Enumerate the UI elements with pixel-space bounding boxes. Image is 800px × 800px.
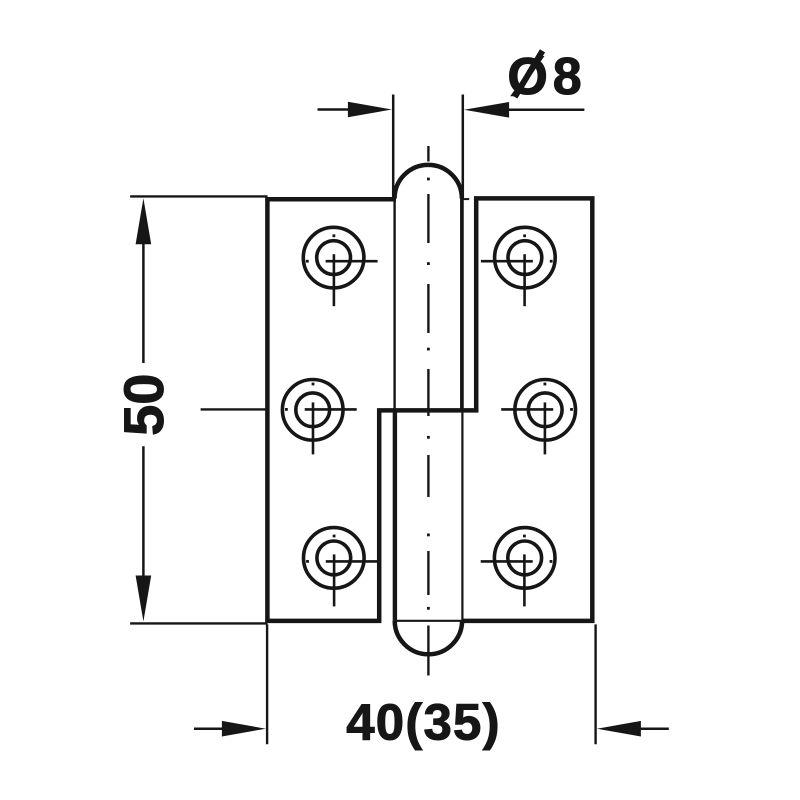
hole H2 top-right [481,227,555,306]
dimension D8 left arrow [318,102,392,118]
right leaf outline [461,198,593,621]
dimension 40(35) right arrow [597,721,669,737]
dimension D8 extension line left [392,95,395,198]
svg-text:40(35): 40(35) [346,694,501,751]
hole H1 top-left [303,227,377,306]
hole H3 middle-left [282,380,356,455]
pin top dome [395,165,462,199]
hole H4 middle-right [501,380,575,455]
dimension D8 extension line right [462,95,465,198]
svg-text:50: 50 [112,374,175,436]
left leaf outline [267,199,478,621]
dimension 50 arrow up [136,198,152,244]
lower knuckle right edge [461,410,463,620]
hole H3 extended centerline to the left [201,408,268,410]
dimension 40(35) label [346,694,501,751]
dimension 50 line lower segment [142,446,145,580]
dimension 40(35) extension line left [266,624,268,744]
dimension 40(35) extension line right [594,624,596,744]
dimension 50 extension line top [130,195,267,197]
dimension 50 extension line bottom [130,622,267,624]
dimension D8 label [507,48,586,106]
hole H5 bottom-left [304,528,378,607]
bottom dome chord line [396,620,462,622]
svg-text:Ø8: Ø8 [507,48,586,106]
upper knuckle right edge [460,198,464,410]
pin centerline (dash-dot), x=428.4 [427,146,430,676]
lower knuckle left edge [393,410,397,620]
dimension 40(35) left arrow [194,721,266,737]
dimension 50 arrow down [136,576,152,622]
dimension D8 right arrow [464,102,584,118]
pin bottom dome [395,621,462,655]
dimension 50 label [112,374,175,436]
dimension 50 line upper segment [142,240,145,363]
upper knuckle left edge [393,198,395,411]
hole H6 bottom-right [481,528,555,607]
